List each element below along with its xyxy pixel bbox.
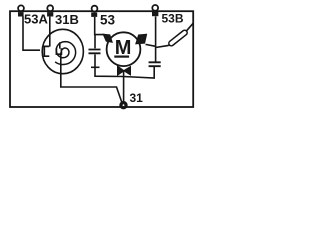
park switch cam spiral [55,42,76,65]
housing frame [10,11,193,107]
wire 53 down to left brush [95,17,105,35]
terminal 53B pin square [152,12,158,16]
fuse lead upper [186,23,193,31]
terminal 53 circle [92,6,98,12]
capacitor C2 plates [149,62,161,66]
svg-text:53: 53 [100,12,116,27]
terminal 53A circle [18,5,24,11]
wire 53A down to park switch contact [23,16,40,50]
fuse lead lower [156,45,171,48]
terminal 31 circle [120,102,127,109]
motor underline [114,56,129,58]
connector tick on left capacitor lead [91,66,100,68]
wire 31B down into park switch [49,17,51,47]
wire left capacitor branch [95,35,124,77]
park switch contact bracket left [44,46,49,56]
wire park switch output down [61,53,122,103]
motor bottom junction wedge [118,66,131,75]
svg-text:53A: 53A [24,12,48,27]
svg-text:31B: 31B [55,12,79,27]
motor M1 body [107,32,141,66]
terminal 53A pin square [18,12,24,16]
svg-text:31: 31 [130,91,144,105]
park switch center contact pin [59,42,61,48]
brush right (53B) [136,34,147,44]
terminal 31B circle [47,5,53,11]
svg-text:53B: 53B [162,12,184,26]
park switch contact bracket center [56,48,61,54]
wire motor to terminal 31 [123,70,125,102]
fuse F1 capsule [168,29,188,47]
capacitor C1 plates [89,50,101,54]
brush left (53) [103,34,112,42]
terminal 53B circle [152,5,158,11]
wire right brush to junction [146,44,156,46]
terminal 31B pin square [47,12,53,16]
box bottom wire right half [124,67,155,78]
terminal 53 pin square [91,12,97,17]
wire 53B down [155,16,157,62]
park switch body S1 [42,29,83,73]
